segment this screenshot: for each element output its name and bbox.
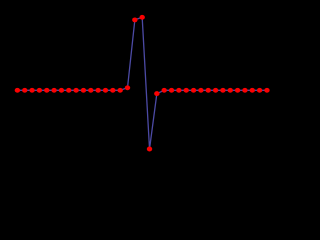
marker point 30 <box>235 88 240 93</box>
marker point 26 <box>206 88 211 93</box>
marker point 10 <box>88 88 93 93</box>
marker point 15 <box>125 85 130 90</box>
data line <box>17 17 267 149</box>
marker point 27 <box>213 88 218 93</box>
marker point 25 <box>198 88 203 93</box>
marker point 3 <box>37 88 42 93</box>
marker point 21 <box>169 88 174 93</box>
marker point 19 <box>154 91 159 96</box>
marker point 5 <box>51 88 56 93</box>
marker point 20 <box>162 88 167 93</box>
marker point 1 <box>22 88 27 93</box>
marker point 23 <box>184 88 189 93</box>
marker point 11 <box>95 88 100 93</box>
marker point 28 <box>220 88 225 93</box>
marker point 24 <box>191 88 196 93</box>
marker point 33 <box>257 88 262 93</box>
marker point 8 <box>73 88 78 93</box>
marker point 4 <box>44 88 49 93</box>
marker point 22 <box>176 88 181 93</box>
marker point 29 <box>228 88 233 93</box>
marker point 31 <box>242 88 247 93</box>
marker point 13 <box>110 88 115 93</box>
marker point 2 <box>29 88 34 93</box>
marker point 12 <box>103 88 108 93</box>
marker point 32 <box>250 88 255 93</box>
marker point 9 <box>81 88 86 93</box>
chart: spike waveform on black background <box>0 0 273 174</box>
marker point 7 <box>66 88 71 93</box>
marker point 14 <box>117 88 122 93</box>
marker point 17 <box>139 15 144 20</box>
marker point 34 <box>264 88 269 93</box>
marker point 0 <box>15 88 20 93</box>
marker point 6 <box>59 88 64 93</box>
marker point 16 <box>132 17 137 22</box>
marker point 18 <box>147 147 152 152</box>
